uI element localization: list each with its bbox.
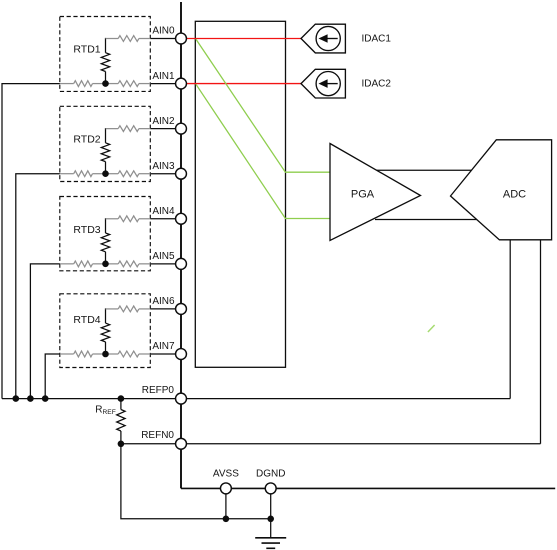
node rail junction RTD2 on REFP0 line — [13, 395, 20, 402]
ADC block — [451, 140, 552, 240]
node terminal DGND — [265, 483, 276, 494]
resistor RREF — [120, 399, 122, 410]
wire REFN0 net — [121, 443, 541, 445]
node rail junction RTD3 on REFP0 line — [27, 395, 34, 402]
wire RTD3 top lead-wire corner — [105, 218, 107, 233]
svg-text:RTD3: RTD3 — [73, 224, 100, 236]
svg-text:REFN0: REFN0 — [141, 430, 174, 441]
wire AIN1 lead (box to terminal) — [150, 83, 176, 85]
node RTD4 bottom junction — [102, 351, 109, 358]
wire AIN5 lead (box to terminal) — [150, 263, 176, 265]
svg-text:AIN7: AIN7 — [152, 341, 175, 352]
svg-text:AVSS: AVSS — [213, 468, 239, 479]
node terminal AIN1 — [176, 78, 187, 89]
svg-text:ADC: ADC — [503, 189, 526, 201]
wire RTD3 return to reference rail — [30, 264, 59, 399]
svg-text:IDAC1: IDAC1 — [362, 34, 392, 45]
wire REFP0 net — [2, 398, 510, 400]
wire PGA output negative — [375, 219, 477, 221]
RTD3 dashed boundary box — [60, 197, 151, 271]
svg-text:RTD4: RTD4 — [73, 314, 100, 326]
resistor lead bottom-left RTD1 (gray) — [60, 83, 74, 85]
resistor lead bottom-right RTD3 (gray) — [118, 261, 139, 267]
resistor lead bottom-left RTD2 (gray) — [60, 173, 74, 175]
wire AIN6 lead (box to terminal) — [150, 308, 176, 310]
resistor RTD4 element — [101, 323, 109, 342]
svg-text:AIN1: AIN1 — [152, 71, 175, 82]
node terminal AIN7 — [176, 349, 187, 360]
node terminal AIN3 — [176, 168, 187, 179]
node terminal AIN5 — [176, 258, 187, 269]
node terminal REFN0 — [176, 438, 187, 449]
resistor lead bottom-right RTD4 (gray) — [118, 351, 139, 357]
wire REFN0-to-ground return — [121, 444, 271, 519]
node terminal AIN4 — [176, 213, 187, 224]
wire AIN3 lead (box to terminal) — [150, 173, 176, 175]
node terminal AIN0 — [176, 33, 187, 44]
RTD1 dashed boundary box — [60, 17, 151, 92]
svg-text:AIN0: AIN0 — [152, 26, 175, 37]
node terminal AVSS — [220, 483, 231, 494]
wire analog input bus vertical — [180, 2, 182, 488]
wire RTD2 top lead-wire corner — [105, 128, 107, 143]
RTD2 dashed boundary box — [60, 106, 151, 181]
node terminal AIN6 — [176, 303, 187, 314]
node RTD3 bottom junction — [102, 261, 109, 268]
wire mux-to-PGA positive path (green) — [196, 39, 330, 172]
resistor lead top AIN4 (gray) — [106, 218, 119, 220]
wire AIN2 lead (box to terminal) — [150, 128, 176, 130]
wire IDAC1 current path (red) — [186, 38, 301, 40]
wire PGA output positive — [377, 169, 472, 171]
resistor RTD1 element — [101, 53, 109, 72]
wire RTD4 top lead-wire corner — [105, 308, 107, 323]
wire AVSS drop — [225, 488, 227, 518]
current source IDAC2 — [301, 69, 345, 98]
svg-text:AIN4: AIN4 — [152, 206, 175, 217]
svg-text:AIN6: AIN6 — [152, 296, 175, 307]
RTD4 dashed boundary box — [60, 294, 151, 368]
svg-text:IDAC2: IDAC2 — [362, 79, 392, 90]
node RTD2 bottom junction — [102, 170, 109, 177]
svg-text:AIN3: AIN3 — [152, 161, 175, 172]
svg-text:REFP0: REFP0 — [142, 385, 175, 396]
resistor lead top AIN0 (gray) — [106, 38, 119, 40]
svg-text:AIN2: AIN2 — [152, 116, 175, 127]
wire AVSS/DGND supply row — [181, 487, 555, 489]
wire AIN7 lead (box to terminal) — [150, 353, 176, 355]
op-amp PGA — [330, 144, 421, 241]
resistor lead bottom-left RTD3 (gray) — [60, 263, 74, 265]
stray green mark — [428, 325, 435, 332]
ground symbol — [255, 537, 286, 539]
svg-text:RTD2: RTD2 — [73, 134, 100, 146]
node AVSS junction — [223, 516, 230, 523]
wire DGND drop — [270, 488, 272, 537]
svg-text:RTD1: RTD1 — [73, 44, 100, 56]
resistor lead bottom-right RTD2 (gray) — [118, 171, 139, 177]
node rail junction RTD4 on REFP0 line — [42, 395, 49, 402]
resistor lead bottom-right RTD1 (gray) — [118, 81, 139, 87]
wire RTD1 top lead-wire corner — [105, 38, 107, 53]
wire RTD4 return to reference rail — [45, 354, 60, 399]
node RREF top junction — [118, 395, 125, 402]
resistor RTD2 element — [101, 143, 109, 162]
node RREF bottom junction — [118, 441, 125, 448]
resistor lead top AIN6 (gray) — [106, 308, 119, 310]
svg-text:AIN5: AIN5 — [152, 251, 175, 262]
wire mux-to-PGA negative path (green) — [196, 84, 330, 218]
node DGND junction — [267, 516, 274, 523]
wire AIN0 lead (box to terminal) — [150, 38, 176, 40]
wire AIN4 lead (box to terminal) — [150, 218, 176, 220]
wire IDAC2 current path (red) — [186, 83, 301, 85]
node terminal REFP0 — [176, 393, 187, 404]
svg-text:DGND: DGND — [256, 468, 285, 479]
current source IDAC1 — [301, 24, 345, 53]
node RTD1 bottom junction — [102, 80, 109, 87]
wire RTD2 return to reference rail — [16, 174, 60, 399]
multiplexer block — [195, 21, 285, 367]
node terminal AIN2 — [176, 123, 187, 134]
resistor lead top AIN2 (gray) — [106, 128, 119, 130]
wire RTD1 return to reference rail — [2, 84, 60, 399]
resistor lead bottom-left RTD4 (gray) — [60, 353, 74, 355]
resistor RTD3 element — [101, 233, 109, 252]
svg-text:PGA: PGA — [351, 188, 375, 200]
